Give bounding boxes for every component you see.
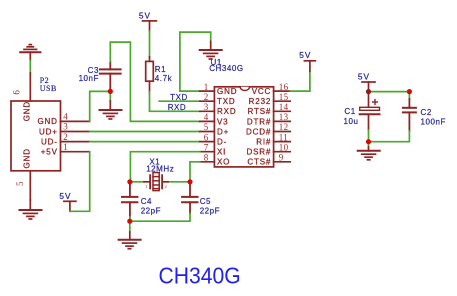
svg-text:5: 5 [15, 181, 25, 186]
wire XI pin7 to crystal [130, 152, 199, 182]
op chip U1 CH340G [200, 87, 290, 167]
svg-text:5V: 5V [59, 191, 71, 201]
svg-text:VCC: VCC [252, 87, 271, 96]
wire C2 bottom to C1 bottom [369, 131, 410, 142]
wire +5V pin1 to 5V symbol [70, 152, 90, 212]
svg-text:3: 3 [63, 122, 68, 132]
pin 5 stub [29, 171, 31, 200]
svg-text:2: 2 [204, 92, 209, 102]
svg-text:UD+: UD+ [39, 127, 58, 136]
svg-text:UD-: UD- [41, 137, 58, 146]
wire GND pin1 to ground symbol [180, 32, 211, 91]
svg-text:R1: R1 [155, 65, 166, 74]
svg-text:D-: D- [217, 138, 227, 147]
svg-text:XO: XO [217, 158, 230, 167]
junction C1 top / 5V [366, 89, 371, 94]
svg-text:13: 13 [279, 112, 289, 122]
svg-text:RTS#: RTS# [247, 107, 271, 116]
capacitor C1 polarized [360, 92, 380, 130]
svg-text:15: 15 [279, 92, 289, 102]
svg-text:CTS#: CTS# [247, 158, 271, 167]
svg-text:1: 1 [145, 184, 147, 189]
pin 4 stub [61, 120, 90, 122]
5V symbol above C1 [362, 82, 375, 92]
junction at C3 bottom / GND net [108, 89, 113, 94]
svg-text:GND: GND [23, 101, 32, 121]
left stubs pins 1-8 [200, 90, 215, 92]
junction node XI / X1 / C4 [127, 179, 132, 184]
wire UD- to D- [90, 141, 200, 143]
svg-text:DCD#: DCD# [246, 127, 271, 136]
svg-text:GND: GND [217, 87, 237, 96]
capacitor C3 [100, 62, 121, 92]
svg-text:16: 16 [279, 82, 289, 92]
svg-text:1: 1 [63, 142, 68, 152]
svg-text:6: 6 [204, 132, 209, 142]
svg-text:USB: USB [40, 84, 57, 93]
svg-text:10: 10 [279, 142, 289, 152]
wire TXD stub [159, 100, 200, 102]
svg-text:3: 3 [204, 102, 209, 112]
pin 1 stub [61, 151, 90, 153]
svg-text:DTR#: DTR# [247, 117, 271, 126]
wire 5V to C2 top [369, 91, 410, 93]
wire R1 to RXD [150, 92, 200, 112]
ground above chip [200, 42, 222, 60]
svg-text:RXD: RXD [168, 103, 187, 112]
svg-text:7: 7 [204, 142, 209, 152]
svg-text:2: 2 [165, 184, 167, 189]
ground below pin 5 [20, 200, 42, 219]
svg-text:TXD: TXD [170, 93, 188, 102]
svg-text:C5: C5 [200, 197, 211, 206]
svg-text:12MHz: 12MHz [146, 165, 174, 174]
pin names [217, 87, 271, 167]
svg-text:5: 5 [204, 122, 209, 132]
wire UD+ to D+ [90, 131, 200, 133]
junction C1 bottom / ground node [366, 139, 371, 144]
capacitor C4 [122, 183, 137, 218]
plus sign [373, 101, 378, 103]
svg-text:R232: R232 [249, 97, 272, 106]
svg-text:+5V: +5V [41, 148, 58, 157]
crystal X1 [130, 181, 144, 183]
svg-text:CH340G: CH340G [159, 262, 241, 288]
junction node XO / X1 / C5 [187, 179, 192, 184]
ground below C3 [109, 94, 111, 101]
svg-text:C1: C1 [344, 107, 355, 116]
svg-text:RXD: RXD [217, 107, 236, 116]
svg-text:4.7k: 4.7k [155, 74, 173, 83]
capacitor C5 [182, 183, 197, 214]
5V symbol right of chip [304, 61, 315, 72]
5V symbol above R1 [143, 21, 157, 31]
svg-text:C4: C4 [141, 197, 152, 206]
svg-text:5V: 5V [139, 10, 151, 20]
svg-text:10nF: 10nF [79, 74, 99, 83]
wire 5V to R1 [149, 31, 151, 57]
wire pin6 to ground [29, 61, 31, 73]
junction C2 top [407, 89, 412, 94]
wire C4/C5 bottoms [130, 213, 190, 221]
svg-text:9: 9 [279, 153, 284, 163]
svg-text:11: 11 [279, 132, 288, 142]
svg-text:10u: 10u [344, 117, 359, 126]
svg-text:14: 14 [279, 102, 289, 112]
wire VCC pin16 to 5V [290, 71, 310, 91]
svg-text:XI: XI [217, 148, 226, 157]
svg-text:12: 12 [279, 122, 289, 132]
wire P2 pin4 GND up to C3 junction [90, 91, 111, 121]
wire C3 top to V3 [110, 42, 200, 121]
resistor R1 [146, 57, 154, 92]
svg-text:D+: D+ [217, 127, 229, 136]
pin numbers left [204, 82, 289, 163]
wire C1 bottom [368, 130, 370, 142]
junction C4 / C5 ground node [127, 219, 132, 224]
svg-text:2: 2 [63, 132, 68, 142]
svg-text:V3: V3 [217, 117, 229, 126]
svg-text:8: 8 [204, 153, 209, 163]
5V symbol bottom-left [64, 201, 76, 211]
right stubs pins 16-9 [274, 90, 291, 92]
ground top-left (up-pointing) [20, 45, 40, 61]
ground below C1 [368, 144, 370, 148]
svg-text:4: 4 [204, 112, 209, 122]
svg-text:CH340G: CH340G [209, 64, 243, 73]
svg-text:DSR#: DSR# [246, 148, 271, 157]
pin 3 stub [61, 131, 90, 133]
svg-text:C2: C2 [421, 108, 432, 117]
svg-text:RI#: RI# [256, 138, 271, 147]
svg-text:GND: GND [23, 148, 32, 168]
svg-text:22pF: 22pF [141, 207, 161, 216]
svg-text:GND: GND [37, 117, 57, 126]
svg-text:4: 4 [63, 112, 68, 122]
svg-text:22pF: 22pF [200, 207, 220, 216]
svg-text:5V: 5V [358, 72, 370, 82]
P2 pin labels [12, 90, 69, 186]
svg-text:6: 6 [12, 90, 22, 95]
svg-text:5V: 5V [299, 50, 311, 60]
capacitor C2 [408, 92, 410, 99]
svg-text:100nF: 100nF [421, 117, 446, 126]
pin 6 stub [29, 73, 31, 101]
wire XO pin8 to crystal [190, 162, 200, 182]
ground below C4 [129, 223, 131, 232]
svg-text:1: 1 [204, 82, 209, 92]
pin 2 stub [61, 141, 90, 143]
svg-text:TXD: TXD [217, 97, 236, 106]
connector P2 [11, 73, 90, 200]
